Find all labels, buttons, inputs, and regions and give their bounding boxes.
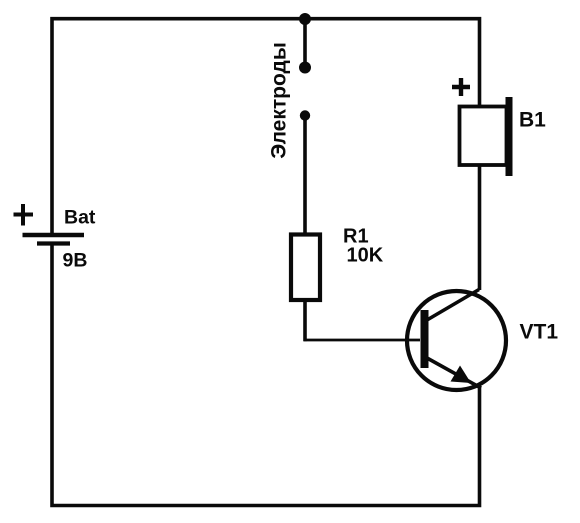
svg-text:9B: 9B [63, 250, 88, 272]
svg-text:Электроды: Электроды [268, 42, 291, 159]
svg-text:10K: 10K [347, 245, 384, 267]
svg-text:B1: B1 [519, 109, 546, 132]
svg-text:VT1: VT1 [520, 321, 559, 344]
svg-text:Bat: Bat [64, 207, 96, 229]
